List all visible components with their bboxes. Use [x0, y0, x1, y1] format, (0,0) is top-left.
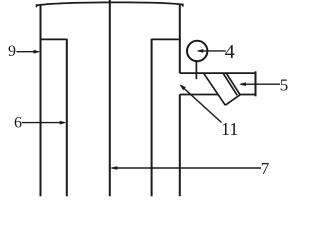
left step horizontal: [41, 38, 67, 40]
chute body white fill (occludes casing bottom line): [204, 74, 240, 105]
arrowhead of leader 11: [180, 84, 186, 90]
arrowhead of leader 7: [111, 166, 118, 170]
right outer wall upper: [179, 4, 181, 73]
arrowhead of leader 9: [34, 50, 41, 54]
chute left edge: [204, 73, 226, 105]
arc right end tick: [182, 4, 184, 7]
left outer wall: [40, 5, 42, 197]
arrowhead of leader 6: [60, 121, 67, 125]
chute right outer edge: [226, 73, 240, 95]
right outer wall lower: [179, 94, 181, 196]
top arc of vessel: [36, 2, 183, 5]
svg-text:5: 5: [280, 76, 289, 95]
right inner wall: [151, 39, 153, 197]
leader line 6: [22, 122, 65, 124]
chute right inner edge (double line): [223, 73, 237, 95]
left inner wall: [66, 39, 68, 197]
svg-text:6: 6: [14, 115, 22, 132]
leader line 9: [17, 51, 39, 53]
arrowhead of leader 4: [197, 49, 204, 53]
feeder end flange: [255, 71, 257, 96]
feeder casing bottom line: [180, 94, 256, 96]
svg-text:9: 9: [8, 43, 16, 60]
svg-text:7: 7: [261, 159, 270, 178]
leader line 11: [181, 85, 222, 122]
chute bottom cap: [225, 95, 240, 106]
arc left end tick: [36, 4, 38, 7]
svg-text:11: 11: [221, 119, 238, 139]
svg-text:4: 4: [225, 41, 235, 63]
leader line 7: [112, 167, 262, 169]
motor circle (part 4 symbol): [187, 41, 207, 61]
motor stem: [195, 61, 197, 79]
leader line 5: [241, 83, 281, 85]
central pipe wall: [109, 0, 111, 196]
arrowhead of leader 5: [239, 82, 246, 86]
right step horizontal: [152, 38, 180, 40]
feeder casing top line: [180, 72, 256, 74]
leader line 4: [198, 50, 226, 52]
